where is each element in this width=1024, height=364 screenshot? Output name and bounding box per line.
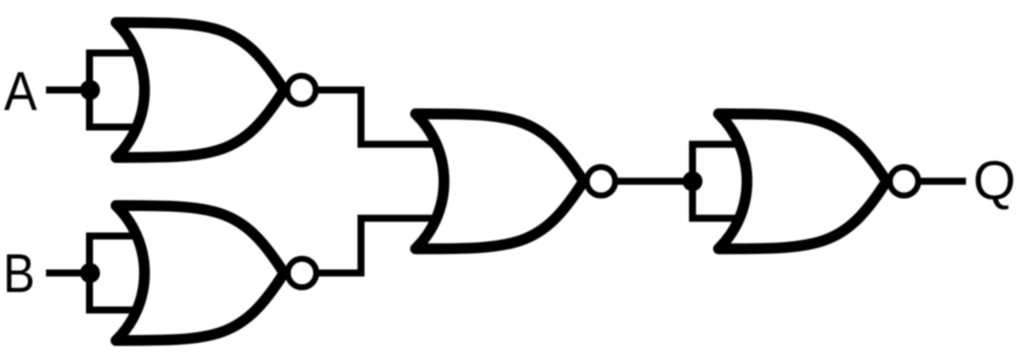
NOR gate U3 (middle) [416,114,584,249]
NOR gate U1 (top-left) [116,23,284,158]
NOR gate U2 (bottom-left) [116,206,284,341]
svg-text:Q: Q [973,149,1016,211]
node gate4 input junction [683,171,703,191]
wire gate2 to gate3 elbow [302,218,451,273]
bubble U1 [287,76,316,105]
wire B input [46,270,90,277]
NOR gate U4 (right) [719,114,887,249]
svg-text:A: A [4,60,37,122]
wire gate4 tie loop [693,144,754,218]
wire A input [46,87,90,94]
wire A tie loop [90,53,151,127]
wire gate3 output [601,178,692,185]
bubble U3 [587,167,616,196]
bubble U2 [288,259,317,288]
wire Q output [904,178,966,185]
wire gate1 to gate3 elbow [302,90,451,144]
node B junction [80,263,100,283]
node A junction [80,80,100,100]
wire B tie loop [90,236,151,310]
svg-text:B: B [3,242,35,304]
bubble U4 [890,167,919,196]
